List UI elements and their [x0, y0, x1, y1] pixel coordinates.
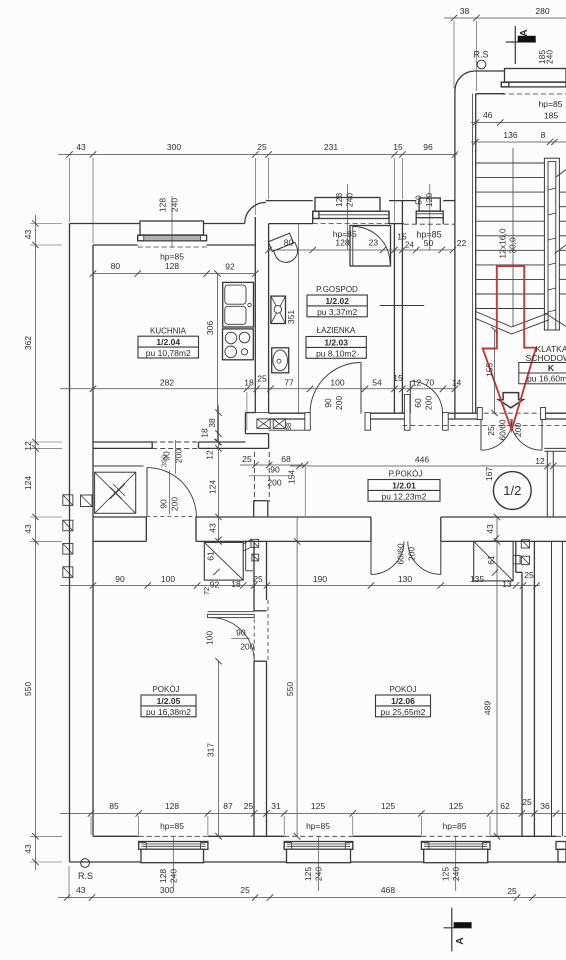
wall corner arc staircase bay — [455, 71, 475, 91]
shelf line corridor — [93, 465, 144, 467]
window W7 sill dashed — [421, 835, 490, 837]
svg-text:100: 100 — [330, 378, 344, 388]
wall kitchen-bathroom right face — [268, 224, 270, 413]
svg-text:100: 100 — [204, 631, 214, 645]
svg-text:136: 136 — [503, 130, 517, 140]
kitchen opening centerline — [175, 440, 177, 474]
wall between pokoj rooms right face — [266, 541, 268, 600]
door D1 bathroom leaf — [360, 363, 362, 414]
svg-text:280: 280 — [535, 6, 549, 16]
window W1 centerline — [171, 196, 173, 247]
dim extensions bathroom bottom — [246, 392, 248, 430]
svg-text:38: 38 — [460, 6, 470, 16]
dim chain right bay y=122.6 — [471, 122, 566, 124]
kitchen stove box — [223, 329, 254, 360]
window W4 sill dashed — [501, 93, 566, 95]
svg-text:25: 25 — [240, 885, 250, 895]
railing diagonal marks — [556, 170, 566, 178]
door D4 swing arc — [511, 419, 542, 450]
svg-text:30,0: 30,0 — [508, 237, 518, 254]
svg-text:60: 60 — [413, 398, 423, 408]
svg-text:15: 15 — [393, 142, 403, 152]
dim chain bathroom y=250 — [269, 249, 453, 251]
wall bottom outer face — [70, 861, 566, 863]
wall kitchen bottom outer face — [93, 447, 152, 449]
svg-text:12: 12 — [412, 378, 422, 388]
wall middle bay top inner face — [269, 223, 313, 225]
section mark A bottom — [451, 908, 453, 952]
stove square room 1/2.05 — [204, 542, 243, 580]
svg-text:200: 200 — [240, 641, 254, 651]
svg-text:1/2.02: 1/2.02 — [325, 296, 349, 306]
wall corridor bottom lower face — [93, 540, 146, 542]
window W8 partial right — [556, 835, 566, 837]
svg-text:87: 87 — [223, 801, 233, 811]
door D6 left arc — [371, 541, 404, 574]
svg-text:46: 46 — [483, 110, 493, 120]
svg-text:1/2.01: 1/2.01 — [392, 480, 416, 490]
window W2 bathroom 128/240 box — [315, 198, 380, 212]
wall pokoj206 right inner face with niche step — [515, 541, 517, 572]
dim top extension lines — [69, 158, 71, 222]
svg-text:31: 31 — [271, 801, 281, 811]
svg-text:90: 90 — [270, 465, 280, 475]
svg-text:23: 23 — [369, 238, 379, 248]
svg-text:62: 62 — [500, 801, 510, 811]
wall staircase bay left outer face — [454, 91, 456, 419]
svg-text:18: 18 — [200, 428, 210, 438]
svg-text:240: 240 — [451, 867, 461, 881]
svg-text:240: 240 — [545, 50, 555, 64]
svg-text:90: 90 — [323, 398, 333, 408]
svg-text:25: 25 — [244, 801, 254, 811]
radiator boxes corridor strip — [257, 419, 270, 429]
dim chain right bay y=142 — [471, 141, 566, 143]
black entry arrow symbol — [498, 393, 523, 408]
bathroom WC — [268, 233, 301, 267]
wall bathroom right faces — [393, 224, 395, 414]
svg-text:231: 231 — [324, 142, 338, 152]
door D6 double leaves — [370, 541, 372, 574]
svg-text:550: 550 — [23, 682, 33, 696]
svg-text:43: 43 — [23, 230, 33, 240]
svg-text:125: 125 — [441, 867, 451, 881]
svg-text:50: 50 — [414, 195, 424, 205]
window W4 staircase 185/240 outer box — [505, 69, 566, 83]
svg-text:135: 135 — [470, 574, 484, 584]
svg-text:128: 128 — [165, 801, 179, 811]
door D7 dashed opening lines — [253, 619, 255, 660]
svg-text:61: 61 — [206, 551, 216, 561]
wall pokoj206 right outer face — [533, 541, 535, 836]
svg-text:61: 61 — [486, 555, 496, 565]
beam line in vestibule — [380, 305, 425, 307]
door D7 jamb lines — [254, 610, 267, 612]
svg-text:pu 25,65m2: pu 25,65m2 — [381, 707, 426, 717]
door D4 landing right leaf — [541, 419, 543, 450]
svg-text:92: 92 — [210, 580, 220, 590]
svg-text:18: 18 — [244, 378, 254, 388]
wall neighbor stair faces — [551, 541, 553, 836]
wall middle bay top outer face — [266, 200, 313, 202]
svg-text:pu 16,60m2: pu 16,60m2 — [527, 374, 566, 384]
window W6 outer box — [287, 849, 351, 863]
svg-text:70: 70 — [425, 378, 435, 388]
svg-text:200: 200 — [407, 547, 417, 561]
svg-text:R.S: R.S — [473, 50, 488, 60]
window W6 frame — [284, 842, 353, 850]
svg-text:100: 100 — [161, 574, 175, 584]
svg-text:14: 14 — [452, 378, 462, 388]
door D5 swing arc — [147, 468, 196, 517]
door D5 dashed opening line — [146, 516, 196, 518]
wall bottom inner face — [93, 835, 139, 837]
dim bottom extensions — [90, 816, 92, 835]
svg-text:43: 43 — [485, 524, 495, 534]
svg-text:pu 8,10m2: pu 8,10m2 — [316, 348, 356, 358]
svg-text:43: 43 — [208, 523, 218, 533]
boxes next to stair door 1/2.06 — [521, 540, 529, 548]
svg-text:25: 25 — [257, 374, 267, 384]
svg-text:P.GOSPOD: P.GOSPOD — [316, 285, 358, 294]
window W3 wide box — [416, 211, 443, 218]
R.S mark bottom — [81, 859, 90, 868]
svg-text:12: 12 — [205, 450, 215, 460]
wall exterior left inner face — [92, 245, 94, 836]
svg-text:pu 10,78m2: pu 10,78m2 — [146, 348, 191, 358]
svg-text:A: A — [519, 29, 530, 36]
window W4 frame — [501, 82, 566, 87]
kitchen opening jambs — [151, 442, 153, 448]
window W6 sill dashed — [284, 835, 353, 837]
svg-text:25: 25 — [242, 454, 252, 464]
svg-text:1/2.04: 1/2.04 — [156, 337, 180, 347]
window W5 centerline — [172, 836, 174, 891]
svg-text:155: 155 — [485, 363, 495, 377]
svg-text:ŁAZIENKA: ŁAZIENKA — [317, 326, 356, 335]
dim chain top right y=18 — [444, 17, 566, 19]
svg-text:446: 446 — [415, 455, 429, 465]
svg-text:25: 25 — [253, 574, 263, 584]
svg-text:282: 282 — [160, 378, 174, 388]
dim chain top y=154.5 — [58, 154, 457, 156]
svg-text:128: 128 — [335, 238, 349, 248]
window W3 sill dashed — [404, 223, 455, 225]
stair break lines — [476, 312, 549, 328]
radiator niche line under boxes — [269, 429, 305, 431]
ppokoj left dashed boundary pair — [253, 452, 255, 502]
apartment circle 1/2 — [493, 472, 531, 510]
stair dim 155 — [494, 330, 496, 413]
svg-text:200: 200 — [334, 396, 344, 410]
svg-text:hp=85: hp=85 — [306, 821, 330, 831]
door D2 vestibule leaf — [409, 381, 411, 413]
window W1 frame — [138, 235, 207, 241]
svg-text:351: 351 — [286, 310, 296, 324]
wall landing band — [455, 412, 482, 414]
svg-text:60/60: 60/60 — [498, 419, 508, 441]
stove square room 1/2.06 — [474, 541, 513, 581]
window W7 centerline — [455, 836, 457, 891]
svg-text:128: 128 — [158, 869, 168, 883]
svg-text:90: 90 — [159, 499, 169, 509]
wall thin ppokoj right — [546, 451, 548, 517]
window W5 sill dashed — [139, 835, 208, 837]
svg-text:43: 43 — [23, 524, 33, 534]
window W3 centerline — [429, 184, 431, 250]
svg-text:72: 72 — [202, 587, 211, 595]
svg-text:12: 12 — [535, 456, 545, 466]
section mark A top — [514, 26, 516, 64]
svg-text:POKÓJ: POKÓJ — [152, 685, 179, 694]
wall corridor bottom upper face — [93, 516, 146, 518]
shower tray — [350, 226, 391, 267]
svg-text:1/2.03: 1/2.03 — [324, 337, 348, 347]
svg-text:pu 12,23m2: pu 12,23m2 — [382, 491, 427, 501]
svg-text:390: 390 — [160, 455, 169, 468]
window W5 frame — [139, 842, 208, 850]
svg-text:K: K — [548, 363, 555, 373]
window W2 centerline — [347, 184, 349, 250]
svg-text:200: 200 — [513, 423, 523, 437]
window W1 kitchen 128/240 outer box — [140, 221, 204, 235]
svg-text:306: 306 — [205, 321, 215, 335]
dim vertical 489 room 1/2.06 right — [496, 517, 498, 836]
svg-text:90: 90 — [115, 574, 125, 584]
svg-text:550: 550 — [285, 682, 295, 696]
svg-text:317: 317 — [206, 743, 216, 757]
svg-text:80: 80 — [111, 261, 121, 271]
svg-text:124: 124 — [208, 480, 218, 494]
kitchen unit upper box — [223, 282, 254, 327]
svg-text:200: 200 — [170, 497, 180, 511]
wall staircase bay top outer face — [475, 70, 505, 72]
wall ppokoj top thin right part — [544, 447, 566, 449]
svg-text:200: 200 — [267, 478, 281, 488]
svg-text:43: 43 — [23, 844, 33, 854]
svg-text:43: 43 — [76, 142, 86, 152]
bathroom washbasin — [272, 348, 289, 373]
wall corner arc kitchen to middle bay — [245, 202, 266, 223]
svg-text:185: 185 — [544, 111, 558, 121]
wall staircase bay top inner face — [475, 94, 477, 413]
svg-text:130: 130 — [398, 574, 412, 584]
landing door frames — [477, 408, 482, 420]
dim corridor 25/68 y=465 — [240, 464, 306, 466]
svg-text:128: 128 — [158, 198, 168, 212]
svg-text:68: 68 — [281, 454, 291, 464]
svg-text:A: A — [455, 937, 466, 944]
svg-text:P.POKÓJ: P.POKÓJ — [389, 470, 423, 479]
svg-text:489: 489 — [483, 701, 493, 715]
svg-text:38: 38 — [207, 418, 217, 428]
wall bathroom bottom band — [269, 412, 305, 414]
svg-text:24: 24 — [405, 241, 414, 250]
svg-text:25: 25 — [507, 886, 517, 896]
svg-text:R.S: R.S — [78, 871, 93, 881]
dim chain bottom y=897.5 — [58, 897, 566, 899]
dim vertical 38/18/12/124/43 at kitchen wall — [218, 405, 220, 541]
svg-text:8: 8 — [541, 130, 546, 140]
svg-text:hp=85: hp=85 — [160, 821, 184, 831]
svg-text:125: 125 — [311, 801, 325, 811]
pilaster boxes on left wall — [63, 495, 73, 506]
window W3 jambs — [415, 218, 417, 225]
svg-text:hp=85: hp=85 — [443, 821, 467, 831]
ppokoj niche — [253, 501, 255, 517]
svg-text:SCHODOWA: SCHODOWA — [526, 353, 566, 363]
svg-text:pu 3,37m2: pu 3,37m2 — [317, 307, 357, 317]
svg-text:25: 25 — [486, 426, 496, 436]
railing balusters — [548, 188, 556, 190]
stove 1/2.06 bridge box — [513, 555, 520, 564]
window W2 sill dashed — [313, 223, 389, 225]
stove 1/2.05 funnel lines — [243, 540, 251, 545]
svg-text:12: 12 — [23, 441, 33, 451]
dim chain kitchen interior y=273.6 — [93, 273, 255, 275]
svg-text:128: 128 — [165, 261, 179, 271]
svg-text:167: 167 — [484, 467, 494, 481]
stair floor dashed line — [476, 412, 566, 414]
window W1 sill dashed line — [138, 246, 207, 248]
door D7 swing arc — [211, 618, 255, 661]
svg-text:1/2.06: 1/2.06 — [391, 696, 415, 706]
svg-text:90: 90 — [236, 628, 246, 638]
svg-text:25: 25 — [522, 797, 532, 807]
svg-text:240: 240 — [170, 198, 180, 212]
dim vertical 317 room 1/2.05 — [218, 661, 220, 836]
svg-text:125: 125 — [449, 801, 463, 811]
svg-text:240: 240 — [169, 869, 179, 883]
door D7 leaf — [208, 614, 255, 617]
dim chain bathroom bottom y=388.8 — [60, 388, 455, 390]
window W2 jamb lines — [312, 211, 314, 223]
door D1 bathroom swing arc — [310, 363, 361, 414]
svg-text:300: 300 — [167, 142, 181, 152]
svg-text:128: 128 — [334, 193, 344, 207]
stair railing — [544, 158, 559, 330]
dashed boundary line below vestibule — [402, 425, 566, 427]
red stair direction arrow — [483, 266, 536, 430]
wall kitchen bottom inner face with opening — [93, 441, 152, 443]
svg-text:124: 124 — [23, 476, 33, 490]
svg-text:468: 468 — [381, 885, 395, 895]
dim chain bottom windows y=813.4 — [60, 812, 566, 814]
svg-text:1/2.05: 1/2.05 — [157, 696, 181, 706]
dim left extension lines — [30, 223, 62, 225]
svg-text:85: 85 — [109, 801, 119, 811]
door D3 swing arc — [481, 419, 512, 450]
wall kitchen top inner face — [93, 244, 138, 246]
svg-text:200: 200 — [424, 396, 434, 410]
door D5 axis line — [169, 470, 171, 514]
svg-text:KUCHNIA: KUCHNIA — [150, 327, 187, 336]
window W6 centerline — [318, 836, 320, 891]
svg-text:25: 25 — [524, 570, 534, 580]
svg-text:POKÓJ: POKÓJ — [389, 685, 416, 694]
svg-text:50: 50 — [424, 238, 434, 248]
kitchen stove burners — [225, 332, 237, 344]
window W7 frame — [421, 842, 490, 850]
svg-text:pu 16,38m2: pu 16,38m2 — [146, 707, 191, 717]
svg-text:15: 15 — [393, 373, 403, 383]
svg-text:12x16,0: 12x16,0 — [498, 228, 508, 259]
door frames bathroom strip — [305, 413, 311, 431]
svg-text:54: 54 — [372, 378, 382, 388]
wall exterior left outer face — [69, 224, 71, 863]
svg-text:1/2: 1/2 — [503, 483, 521, 498]
svg-text:hp=85: hp=85 — [539, 99, 563, 109]
svg-text:25: 25 — [257, 142, 267, 152]
right flight break diagonal — [545, 313, 566, 327]
door D5 corridor leaf — [146, 468, 148, 517]
dim chain left x=35.5 — [35, 215, 37, 870]
svg-text:240: 240 — [345, 193, 355, 207]
svg-text:43: 43 — [76, 885, 86, 895]
corridor door jambs — [145, 517, 147, 541]
svg-text:200: 200 — [174, 449, 184, 463]
svg-text:92: 92 — [225, 262, 235, 272]
svg-text:300: 300 — [160, 885, 174, 895]
pilaster box inside corridor — [81, 495, 93, 507]
svg-text:18: 18 — [231, 579, 241, 589]
dim chain room bottoms y=585.5 — [60, 585, 540, 587]
bathroom dim 351 vertical — [298, 224, 300, 413]
svg-text:96: 96 — [423, 142, 433, 152]
svg-text:13: 13 — [502, 579, 512, 589]
wall kitchen-bathroom left face — [254, 217, 256, 413]
svg-text:80: 80 — [284, 238, 294, 248]
stair walk centerline — [512, 148, 514, 327]
svg-text:125: 125 — [381, 801, 395, 811]
door D3 landing left leaf — [480, 419, 482, 450]
window W3 vestibule 50/120 protruding box — [419, 198, 440, 211]
wall between pokoj rooms left face — [253, 541, 255, 610]
wardrobe hatched box corridor — [95, 472, 136, 513]
dim vertical 550 room 1/2.06 — [296, 517, 298, 836]
svg-text:36: 36 — [540, 801, 550, 811]
svg-text:60/60: 60/60 — [396, 543, 406, 565]
bathroom washer box — [271, 296, 286, 323]
svg-text:240: 240 — [314, 867, 324, 881]
svg-text:190: 190 — [313, 574, 327, 584]
door D2 swing arc — [410, 381, 442, 413]
stair treads right of railing — [559, 191, 566, 193]
svg-text:22: 22 — [457, 238, 467, 248]
stove 1/2.05 side line — [245, 541, 247, 571]
wall kitchen top outer face — [70, 223, 141, 225]
stair treads — [476, 162, 545, 164]
door D7 top jamb line — [208, 611, 255, 613]
dim ppokoj 446/12 y=466 — [290, 465, 566, 467]
svg-text:154: 154 — [287, 470, 297, 484]
chimney niche in kitchen wall — [244, 413, 246, 434]
door D6 right arc — [408, 541, 441, 574]
svg-text:125: 125 — [303, 867, 313, 881]
svg-text:77: 77 — [284, 378, 294, 388]
svg-text:120: 120 — [424, 193, 434, 207]
boxes next to stove 1/2.05 — [251, 539, 259, 547]
window W5 outer box — [141, 849, 204, 863]
svg-text:362: 362 — [23, 336, 33, 350]
window W7 outer box — [424, 849, 488, 863]
svg-text:hp=85: hp=85 — [160, 252, 184, 262]
dim kitchen vertical 306 — [217, 274, 219, 442]
